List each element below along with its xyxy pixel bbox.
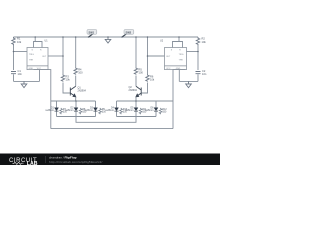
svg-text:red5mm: red5mm: [145, 109, 154, 112]
wire node B2 column right: [135, 37, 137, 68]
svg-text:GND: GND: [176, 68, 181, 70]
wire left LED bottom rail: [57, 116, 96, 118]
svg-text:LAB: LAB: [27, 161, 38, 165]
resistor R2: [196, 37, 199, 46]
resistor R1: [12, 37, 15, 46]
wire left column below R1: [13, 45, 15, 71]
svg-text:10k: 10k: [202, 40, 207, 44]
svg-text:red5mm: red5mm: [125, 109, 134, 112]
wire node A column: [62, 37, 64, 75]
svg-text:http://circuitlab.com/c/q26g59: http://circuitlab.com/c/q26g59ou2c2/: [49, 160, 102, 164]
LED D6: [154, 101, 158, 117]
svg-text:SW1: SW1: [89, 30, 95, 34]
wire right ground loop: [179, 80, 198, 82]
svg-text:10k: 10k: [150, 78, 155, 82]
svg-text:VCC: VCC: [166, 68, 171, 70]
wire U1 right pin to node A: [48, 55, 63, 57]
transistor Q1: [70, 86, 75, 97]
LED D1: [55, 101, 59, 117]
resistor R9: [99, 108, 102, 114]
svg-text:THR: THR: [29, 59, 34, 61]
LED D5: [134, 101, 138, 117]
wire U2 bottom pin2: [178, 70, 180, 82]
svg-text:red5mm: red5mm: [105, 109, 114, 112]
IC U2 box: [165, 48, 187, 70]
svg-text:red5mm: red5mm: [84, 109, 93, 112]
svg-text:red5mm: red5mm: [65, 109, 74, 112]
wire U2 left pin to node A2: [148, 55, 165, 57]
svg-text:SW2: SW2: [126, 30, 132, 34]
LED D3: [94, 101, 98, 117]
node dots: [13, 36, 199, 102]
svg-text:10n: 10n: [18, 72, 23, 76]
svg-text:VCC: VCC: [37, 68, 42, 70]
resistor R7: [60, 108, 63, 114]
capacitor C1: [11, 72, 16, 74]
wire U1 top pins jumper: [34, 37, 43, 48]
resistor R12: [159, 108, 162, 114]
wire Q1 emitter: [75, 97, 77, 101]
switch SW1: [87, 30, 97, 37]
svg-text:10k: 10k: [66, 78, 71, 82]
wire V+ top rail: [14, 36, 199, 38]
wire U2 right pin: [187, 51, 199, 53]
wire right LED bottom rail: [117, 116, 157, 118]
wire node A2 column right: [147, 37, 149, 75]
wire Q2 emitter: [135, 97, 137, 101]
ground right: [186, 81, 192, 87]
ground mid top: [105, 37, 111, 43]
wire U2 bottom pin1 to LED feed: [173, 70, 186, 129]
wire bottom bus B2: [51, 128, 173, 130]
IC U1 box: [27, 48, 48, 70]
footer bar: [0, 154, 220, 167]
svg-text:chandran / FlipFlop: chandran / FlipFlop: [49, 155, 77, 159]
resistor R6: [146, 75, 149, 82]
LED D2: [74, 101, 78, 117]
wire right LED top rail: [117, 100, 174, 102]
wire emitter bus B1: [76, 117, 136, 123]
svg-text:10k: 10k: [17, 40, 22, 44]
switch SW2: [122, 30, 134, 37]
svg-text:100: 100: [78, 71, 83, 75]
resistor R3: [61, 75, 64, 82]
svg-text:10n: 10n: [202, 72, 207, 76]
wire right column below R2: [197, 45, 199, 71]
LED D4: [115, 101, 119, 117]
wire U2 top pins jumper: [173, 37, 183, 48]
component labels: [17, 30, 207, 113]
resistor R5: [134, 68, 137, 75]
resistor R10: [120, 108, 123, 114]
svg-text:THR: THR: [179, 59, 184, 61]
svg-text:TRIG: TRIG: [29, 54, 34, 56]
svg-text:GND: GND: [29, 68, 34, 70]
logo CircuitLab: [9, 158, 38, 167]
resistor R8: [79, 108, 82, 114]
ground: [21, 81, 27, 87]
wire left LED top rail: [51, 100, 96, 102]
transistor Q2: [136, 86, 141, 97]
svg-text:2N3904: 2N3904: [129, 89, 138, 92]
svg-text:2N3904: 2N3904: [78, 89, 87, 92]
wire U1 bottom pin1 to LED feed: [34, 70, 51, 129]
capacitor C2: [196, 72, 201, 74]
wire U1 bottom pin2: [39, 70, 41, 82]
wire left ground loop: [14, 80, 40, 82]
wire left box left pin: [14, 51, 28, 53]
svg-text:red5mm: red5mm: [45, 109, 54, 112]
svg-text:TRIG: TRIG: [179, 54, 184, 56]
resistor R11: [139, 108, 142, 114]
U1 pin names: [29, 50, 47, 70]
wire node B column: [75, 37, 77, 68]
resistor R4: [74, 68, 77, 75]
U2 pin names: [166, 50, 184, 70]
svg-text:100: 100: [139, 71, 144, 75]
